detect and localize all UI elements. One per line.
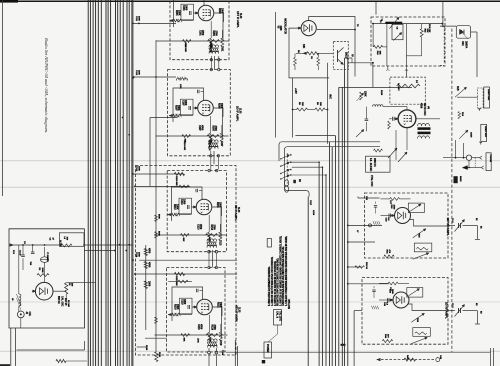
- rf plate wire: [410, 220, 450, 227]
- svg-text:T207: T207: [220, 141, 223, 147]
- interstage wire 1-2: [214, 56, 216, 70]
- fold line artifact 3: [0, 301, 500, 303]
- rf2 out corner down: [476, 311, 478, 325]
- svg-text:10K: 10K: [302, 44, 305, 49]
- svg-text:R1 240: R1 240: [67, 300, 70, 308]
- svg-text:MAIN: MAIN: [459, 176, 462, 182]
- divider resistor Rb: [144, 262, 147, 269]
- input coil hatch: [172, 213, 174, 216]
- bias resistor left: [182, 135, 191, 138]
- bottom resistor: [56, 359, 66, 362]
- bias resistor vert a: [294, 57, 297, 65]
- transistor Q1: [337, 50, 339, 62]
- modulator tube V3: [301, 21, 316, 36]
- rf tube: [395, 208, 411, 224]
- boundary 1-2 terminal circles: [210, 59, 212, 61]
- switch contact out wire b: [292, 166, 323, 168]
- het left vertical a: [372, 24, 374, 47]
- bottom wire y350: [17, 349, 85, 351]
- switch contact out wire a: [292, 161, 319, 163]
- rail resistor c: [155, 317, 158, 324]
- bus feed line x=133: [132, 0, 134, 366]
- svg-text:POWER: POWER: [266, 344, 268, 353]
- svg-text:2700: 2700: [214, 31, 217, 37]
- svg-text:68K: 68K: [182, 238, 184, 242]
- svg-text:R216 68K: R216 68K: [175, 176, 177, 186]
- svg-text:220K: 220K: [364, 91, 367, 97]
- input coil hatch: [173, 313, 175, 316]
- rf mid pot arrow: [413, 229, 426, 238]
- svg-text:4.7K: 4.7K: [209, 338, 212, 343]
- bias resistor right: [206, 234, 218, 237]
- transformer coil above bars: [418, 123, 430, 126]
- 2nd RF amplifier dashed box: [362, 278, 448, 345]
- svg-text:R210 68K: R210 68K: [183, 141, 185, 151]
- boxed label POWER: [264, 342, 272, 358]
- terminal circle on rf1 grid wire: [369, 224, 372, 227]
- rf1 out corner down: [476, 226, 478, 240]
- het left vertical b: [386, 24, 388, 66]
- mechanical link dashed: [474, 158, 476, 168]
- plate out wire: [212, 207, 221, 216]
- svg-text:2. SWITCH S2 IS VIEWED FROM E: 2. SWITCH S2 IS VIEWED FROM END OPPOSITE…: [280, 235, 282, 306]
- bias resistor right: [207, 135, 219, 138]
- switch shaft dashed: [286, 153, 288, 188]
- feed resistor on y186: [179, 185, 189, 188]
- het bottom terminals: [387, 66, 389, 69]
- svg-text:2D RF AMPL: 2D RF AMPL: [445, 302, 449, 319]
- wire y106 to tube: [383, 106, 407, 108]
- IF transformer coil top: [209, 140, 219, 142]
- 1st RF trimmer capacitor: [458, 223, 460, 228]
- T3 tuning arrow: [390, 17, 400, 28]
- rf pot upper box: [407, 288, 423, 298]
- diode output wire: [471, 31, 477, 33]
- modulator vertical wire A217: [327, 63, 329, 144]
- phone wire: [470, 167, 481, 169]
- svg-text:4700: 4700: [200, 324, 203, 330]
- bottom left vertical wire pair: [10, 328, 12, 366]
- svg-text:1000: 1000: [138, 16, 140, 21]
- trimmer arrow in sub-box: [393, 33, 402, 41]
- svg-text:10K: 10K: [319, 102, 321, 106]
- coil wires: [18, 245, 20, 294]
- cap Ca: [21, 254, 25, 256]
- S2 label mark: [293, 180, 296, 183]
- wire with left arrow: [14, 244, 62, 246]
- svg-text:150K: 150K: [178, 10, 181, 16]
- svg-text:1000: 1000: [183, 299, 186, 305]
- wire rf2 right: [448, 310, 455, 312]
- het vertical link: [405, 69, 407, 77]
- wire bus y77: [133, 76, 176, 78]
- arrow at 362,131: [356, 130, 364, 138]
- diode CR1 rounded box: [456, 26, 470, 39]
- svg-text:1500: 1500: [219, 302, 222, 308]
- svg-text:AVC: AVC: [329, 94, 332, 99]
- coil resistor L6 in sub-box: [61, 244, 72, 247]
- svg-text:T219: T219: [219, 340, 222, 346]
- stage right wires to bottom: [234, 340, 236, 366]
- black square mark: [262, 360, 265, 363]
- coil right: [373, 105, 383, 107]
- svg-text:22K: 22K: [301, 102, 303, 106]
- output transformer black bars: [418, 127, 431, 130]
- input resistor: [171, 213, 179, 216]
- svg-text:500 KC: 500 KC: [57, 296, 60, 304]
- wire Q1 to tuner: [372, 63, 374, 88]
- transformer feed wires: [210, 141, 212, 144]
- tube V4 heterodyne oscillator: [398, 110, 416, 128]
- plate out wire: [214, 108, 223, 117]
- svg-text:PHONE: PHONE: [489, 155, 491, 163]
- oscillator tube V5 3A4: [35, 282, 53, 300]
- resistor on dashed line: [404, 358, 416, 361]
- transformer T3 black bar: [385, 22, 402, 24]
- wire tube top loop: [174, 0, 205, 27]
- wire Q1 output down: [342, 57, 344, 59]
- switch top feed wire: [295, 135, 335, 137]
- svg-text:4700: 4700: [148, 262, 151, 268]
- svg-text:4TH IF AMPL: 4TH IF AMPL: [234, 305, 238, 322]
- xtal band box: [366, 156, 391, 172]
- junction dots lamp wire: [455, 157, 457, 159]
- svg-text:56K: 56K: [379, 51, 381, 55]
- wire bus y274: [135, 273, 237, 275]
- svg-text:T213: T213: [219, 240, 222, 246]
- svg-text:C214: C214: [135, 252, 138, 258]
- screen resistor below tube: [209, 133, 212, 142]
- modulator vertical wire C217: [292, 78, 294, 138]
- modulator plate wire: [309, 17, 355, 77]
- rf pot upper box: [408, 203, 424, 213]
- tube V202 2nd IF amplifier: [198, 100, 214, 116]
- bias resistor right: [206, 334, 218, 337]
- 3rd/4th IF outer dashed enclosure: [135, 166, 236, 356]
- bottom right verticals: [490, 348, 492, 366]
- svg-text:22K: 22K: [426, 29, 428, 33]
- diode CR1: [460, 31, 465, 33]
- wire y250.5: [85, 250, 115, 252]
- output terminal circles: [208, 351, 211, 354]
- boundary 3-4 wires: [208, 250, 210, 266]
- grid wire: [192, 206, 196, 208]
- modulator grid resistor: [307, 52, 319, 55]
- svg-text:1000: 1000: [183, 199, 186, 205]
- het top wire: [372, 23, 443, 25]
- plate resistor below tube: [219, 332, 222, 341]
- grid capacitor: [187, 305, 189, 309]
- svg-text:1N67A: 1N67A: [465, 41, 468, 49]
- svg-text:3D IF AMPL: 3D IF AMPL: [234, 205, 238, 221]
- svg-text:R222 68K: R222 68K: [175, 276, 177, 286]
- svg-text:1L33: 1L33: [239, 13, 242, 19]
- stage4 plate drop: [221, 307, 223, 338]
- svg-text:LIGHT ANT: LIGHT ANT: [484, 126, 487, 138]
- divider wire: [145, 245, 147, 330]
- 1st IF amplifier dashed enclosure: [170, 0, 229, 60]
- short wire y347: [137, 346, 147, 348]
- svg-text:2700: 2700: [212, 225, 215, 231]
- IF transformer coil bottom: [209, 146, 219, 148]
- osc plate wire: [53, 290, 66, 292]
- input cluster box: [181, 4, 194, 20]
- svg-text:1L33: 1L33: [239, 108, 242, 114]
- IF transformer coil top: [208, 339, 218, 341]
- IF transformer hatching: [209, 48, 211, 51]
- wire bus to rf2: [348, 283, 389, 285]
- bus junction dots: [114, 23, 134, 262]
- svg-text:A216: A216: [312, 210, 315, 216]
- svg-text:4. ARROW ON POT INDICATES CW: 4. ARROW ON POT INDICATES CW ROTATION.: [271, 256, 274, 306]
- svg-text:5. INDICATES EQUIPMEN: 5. INDICATES EQUIPMENT MARKING.: [268, 266, 271, 306]
- rf tube: [393, 292, 409, 308]
- boxed label LIGHT ANT: [481, 124, 487, 141]
- divider resistors between C217 A217: [293, 109, 297, 111]
- svg-text:C212: C212: [135, 70, 137, 76]
- rf mid pot arrow: [411, 313, 424, 322]
- terminal Y b: [479, 142, 482, 145]
- rf feed resistor top: [388, 282, 398, 285]
- screen resistor below tube: [210, 38, 213, 47]
- wire to diode: [440, 25, 456, 27]
- wire rf1 to antenna: [448, 225, 455, 227]
- input coil hatch: [174, 19, 176, 22]
- svg-text:1000: 1000: [138, 166, 140, 171]
- svg-text:1. UNLESS OTHERWISE INDICATED: 1. UNLESS OTHERWISE INDICATED RESISTANCE…: [285, 236, 288, 306]
- fold line artifact 2: [0, 186, 500, 188]
- oscillator coil sub-box: [59, 233, 84, 247]
- svg-text:4700: 4700: [199, 224, 202, 230]
- bottom mid black mark: [341, 344, 346, 346]
- divider resistor Ra: [144, 249, 147, 256]
- boundary 2-3 terminal circles: [210, 155, 212, 157]
- svg-text:1ST RF AMPL: 1ST RF AMPL: [446, 218, 450, 237]
- wire top edge to het box: [375, 1, 377, 14]
- rf2 feed zigzag: [355, 266, 365, 269]
- left frame line: [2, 0, 4, 196]
- svg-text:5.0 - 10.5 MC: 5.0 - 10.5 MC: [369, 158, 371, 172]
- wire bus to rf2 grid: [348, 266, 362, 268]
- calibration oscillator enclosure: [9, 229, 85, 328]
- S2 wafer symbol: [285, 180, 289, 186]
- het center vertical: [405, 24, 407, 66]
- top border line: [0, 0, 500, 2]
- svg-text:R230: R230: [145, 345, 147, 351]
- wire y198: [358, 197, 380, 199]
- svg-text:2N217: 2N217: [345, 52, 348, 60]
- svg-text:2700: 2700: [213, 325, 216, 331]
- wires from pot down to lamp wire: [455, 140, 457, 158]
- switch contact arm 3: [281, 170, 290, 174]
- boundary 3-4 terminal circles: [208, 250, 211, 253]
- wire tube top loop: [172, 187, 203, 221]
- input cluster box: [181, 99, 194, 115]
- IF transformer coil bottom: [207, 245, 217, 247]
- long dashed boundary line: [451, 29, 453, 352]
- terminal wires to bottom edge: [208, 354, 210, 366]
- svg-text:FROM THE OPPOSITE CONTROL KNOB: FROM THE OPPOSITE CONTROL KNOB END.: [278, 257, 280, 306]
- svg-text:100K: 100K: [41, 268, 43, 273]
- lamp to phone vertical: [468, 160, 470, 167]
- svg-text:1000: 1000: [138, 70, 140, 75]
- screen resistor below tube: [208, 232, 211, 241]
- svg-text:150K: 150K: [176, 204, 179, 210]
- IF transformer coil bottom: [208, 345, 218, 347]
- modulator left wire: [289, 28, 329, 78]
- svg-text:R204 4.7K: R204 4.7K: [209, 43, 212, 53]
- svg-text:+13V: +13V: [294, 88, 297, 94]
- resistor right col: [458, 112, 461, 119]
- input resistor: [173, 19, 181, 22]
- rf input coil hatch: [373, 221, 375, 224]
- wires below tube: [406, 128, 408, 150]
- osc output wire to bus: [66, 282, 95, 284]
- svg-text:TAL LITE: TAL LITE: [279, 311, 282, 321]
- tube V203 3rd IF amplifier: [196, 199, 212, 215]
- interstage wire 3-4: [212, 250, 214, 268]
- leader line from boxed labels: [268, 325, 278, 342]
- het-osc outer dashed box: [371, 17, 445, 66]
- het bottom link: [406, 55, 421, 57]
- svg-text:R19 22K: R19 22K: [428, 24, 430, 33]
- svg-text:L4 OSC: L4 OSC: [397, 83, 400, 91]
- antenna terminal spacer: [451, 262, 453, 264]
- svg-text:CAL OSC: CAL OSC: [60, 296, 63, 307]
- input arrow: [169, 115, 172, 117]
- boundary 2-3 wires: [210, 151, 212, 169]
- modulator right wire: [317, 29, 355, 31]
- svg-text:1000: 1000: [138, 252, 140, 257]
- IF transformer hatching: [207, 342, 209, 345]
- rf input cap: [388, 214, 390, 218]
- svg-text:C213: C213: [135, 166, 137, 172]
- transformer feed wires: [208, 240, 210, 243]
- svg-text:C217: C217: [309, 200, 311, 206]
- fold line artifact 4: [0, 350, 500, 352]
- dashed AGC line bottom: [377, 359, 436, 361]
- top coupling capacitor: [197, 90, 199, 93]
- bottom wire y361: [66, 360, 87, 362]
- input coil hatch: [174, 114, 176, 117]
- grid wire: [193, 107, 197, 109]
- long bottom wire y352.5: [226, 352, 490, 354]
- dial lamp circle: [466, 155, 471, 160]
- svg-text:R211 4.7K: R211 4.7K: [208, 141, 211, 151]
- boxed label CAL & TAL LITE: [274, 310, 282, 326]
- switch routed wire inner: [285, 147, 381, 197]
- switch arrow below tube a: [388, 148, 397, 158]
- svg-text:R31 56: R31 56: [365, 262, 367, 270]
- wire Q1 to right: [348, 62, 373, 64]
- transistor Q1 dashed box: [333, 42, 348, 70]
- boxed label PHONE: [486, 153, 491, 171]
- svg-text:CAL: CAL: [28, 312, 31, 317]
- switch contact out wire c: [292, 174, 326, 176]
- rf feed resistor top: [390, 198, 400, 201]
- svg-text:150K: 150K: [177, 105, 180, 111]
- rf lower pot arrow: [411, 338, 427, 344]
- wire y97: [457, 96, 478, 98]
- svg-text:4700: 4700: [201, 30, 204, 36]
- svg-text:CAL &: CAL &: [276, 311, 279, 318]
- 1st RF amplifier dashed box: [365, 193, 449, 258]
- rf input cap: [387, 298, 389, 302]
- top-left corner black band: [0, 0, 18, 3]
- het left resistor: [373, 45, 382, 48]
- svg-text:1500: 1500: [221, 8, 224, 14]
- 3rd IF amplifier inner dashed box: [167, 171, 226, 252]
- bias resistor vert b: [317, 57, 320, 65]
- bottom-left corner black mark: [0, 364, 10, 366]
- svg-text:1L33: 1L33: [238, 307, 241, 313]
- svg-text:T204: T204: [221, 350, 224, 356]
- middle bus verticals: [308, 58, 348, 366]
- svg-text:S1B: S1B: [456, 86, 459, 91]
- switch routed wire outer: [279, 142, 380, 161]
- diode variable dashed arrow: [460, 30, 469, 40]
- svg-text:GAIN: GAIN: [470, 132, 473, 138]
- svg-text:L201: L201: [179, 84, 181, 90]
- grid wire: [194, 12, 198, 14]
- grid capacitor: [188, 106, 190, 110]
- input cluster box: [179, 198, 192, 214]
- terminal Y a: [478, 108, 481, 111]
- transformer coil below bars: [418, 136, 430, 139]
- bias resistor right: [208, 40, 220, 43]
- tube V204 4th IF amplifier: [197, 299, 213, 315]
- wire corner rf2 to bottom: [353, 311, 355, 366]
- 4th IF amplifier inner dashed enclosure: [167, 268, 225, 353]
- dial lamp boxed label b: [484, 87, 490, 108]
- svg-text:3. SWITCH S3 IS SHOWN IN CW P: 3. SWITCH S3 IS SHOWN IN CW POSITION.: [275, 260, 277, 306]
- svg-text:R203 68K: R203 68K: [184, 43, 186, 53]
- switch contact arm 1: [281, 155, 290, 159]
- svg-text:CAPACITANCES ARE IN UUF, INDUC: CAPACITANCES ARE IN UUF, INDUCTANCES ARE…: [282, 246, 285, 306]
- svg-text:MODULATOR: MODULATOR: [284, 18, 287, 34]
- svg-text:4106: 4106: [420, 103, 423, 109]
- svg-text:1500: 1500: [219, 202, 222, 208]
- switch S1B arrow: [455, 87, 467, 97]
- stage2 input coil: [176, 78, 187, 80]
- wire het right: [416, 118, 440, 120]
- svg-text:L6 750: L6 750: [59, 240, 61, 247]
- crystal wires: [44, 247, 46, 257]
- svg-text:T201: T201: [221, 46, 224, 52]
- input arrow: [168, 214, 171, 216]
- lamp wire Y terminal: [480, 156, 483, 159]
- divider resistor Rc: [144, 281, 147, 289]
- svg-text:1500: 1500: [220, 103, 223, 109]
- resistor 100K horizontal: [37, 274, 49, 277]
- svg-text:2700: 2700: [214, 126, 217, 132]
- svg-text:CR1: CR1: [461, 41, 464, 46]
- top coupling capacitor: [195, 189, 197, 192]
- IF transformer hatching: [207, 242, 209, 245]
- cap Cb: [31, 251, 35, 253]
- svg-text:1000: 1000: [185, 5, 188, 11]
- phone jack left arrow: [463, 167, 471, 169]
- stage bias line: [156, 40, 229, 42]
- wire bus to 4th IF input: [139, 259, 237, 261]
- wire bus to 2nd IF input: [150, 117, 178, 119]
- circle terminal bottom right: [436, 358, 440, 362]
- bias resistor left: [181, 334, 190, 337]
- 3rd IF feed resistor: [174, 172, 184, 175]
- svg-text:XTAL OSC: XTAL OSC: [370, 175, 373, 187]
- dashed wire corner right of het box: [443, 26, 445, 63]
- interstage wire 2-3: [213, 151, 215, 164]
